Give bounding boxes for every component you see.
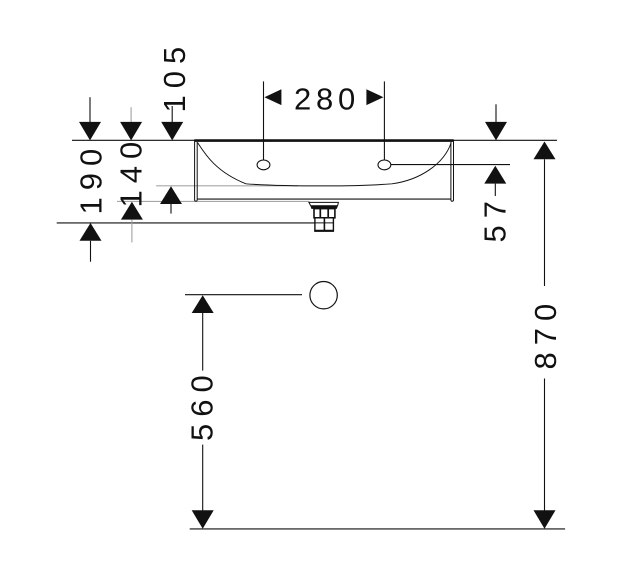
- drain flange thick band: [311, 206, 338, 209]
- wire: 190 line crossing drain: [315, 222, 334, 224]
- dim 105 top arrowhead (down): [161, 122, 183, 140]
- dim 105 top arrow tail: [171, 106, 173, 123]
- basin left edge (double line pill): [195, 141, 198, 202]
- dim 190 bottom arrowhead (up): [80, 223, 102, 241]
- dim 560 upper tail: [202, 313, 204, 371]
- dim 870 top arrowhead (up): [534, 142, 556, 160]
- basin top rim (thick): [194, 139, 453, 142]
- dim 140 top arrowhead (down): [120, 122, 142, 140]
- dim 870 lower tail: [544, 379, 546, 511]
- dim 105 bottom arrow tail: [170, 204, 172, 214]
- tap hole right: [378, 160, 391, 170]
- wire: tap-hole level line to right (57 upper ref): [391, 164, 510, 166]
- drain flange: [309, 202, 339, 205]
- dim 140 bottom arrowhead (up): [121, 202, 143, 220]
- drain nut divider 1: [319, 209, 321, 218]
- dim 560 top line: [185, 294, 302, 296]
- wire: grey bowl-bottom extension (105 ref): [156, 185, 298, 187]
- dim 140 top arrow tail (grey): [130, 107, 132, 123]
- drain position circle: [310, 282, 337, 309]
- dim 190 bottom arrow tail: [90, 241, 92, 262]
- wire: grey basin-bottom extension (140 ref): [117, 200, 310, 202]
- wire: drain bottom line (190 ref): [57, 222, 334, 224]
- dim 560 bottom arrowhead (down): [192, 510, 214, 529]
- dim 280 left extension: [263, 81, 265, 159]
- svg-text:560: 560: [185, 368, 220, 441]
- dim 280 left arrowhead: [264, 89, 281, 105]
- svg-text:57: 57: [478, 194, 513, 242]
- dim 57 bottom arrow tail: [494, 184, 496, 196]
- svg-text:870: 870: [528, 297, 563, 370]
- dim 57 bottom arrowhead (up): [484, 166, 506, 184]
- dim 560 lower tail: [202, 445, 204, 511]
- svg-text:280: 280: [294, 82, 360, 117]
- dim 190 top arrow tail: [89, 97, 91, 123]
- wire: top rim extension line: [72, 139, 557, 141]
- dim 190 top arrowhead (down): [79, 122, 101, 140]
- svg-text:190: 190: [74, 142, 109, 215]
- dim 280 right arrowhead: [366, 89, 383, 105]
- dim 280 right extension: [383, 81, 385, 159]
- drain tailpiece divider: [323, 218, 325, 231]
- dim 140 bottom arrow tail (grey): [131, 220, 133, 243]
- basin right edge (double line pill): [451, 141, 454, 202]
- basin bottom line: [197, 198, 451, 200]
- svg-text:140: 140: [114, 135, 149, 208]
- wire: floor line: [190, 528, 565, 530]
- dim 560 top arrowhead (up): [192, 295, 214, 313]
- dim 105 bottom arrowhead (up): [160, 186, 182, 204]
- svg-text:105: 105: [157, 40, 192, 113]
- dim 870 bottom arrowhead (down): [534, 510, 556, 529]
- bowl inner curve: [198, 143, 452, 186]
- dim 57 top arrow tail: [495, 104, 497, 122]
- dim 57 top arrowhead (down): [485, 122, 507, 140]
- drain nut body: [314, 209, 335, 218]
- drain tailpiece thick bottom: [314, 230, 334, 232]
- drain nut divider 2: [327, 209, 329, 218]
- dim 870 upper tail: [544, 159, 546, 286]
- drain tailpiece box: [315, 218, 334, 231]
- tap hole left: [257, 160, 270, 170]
